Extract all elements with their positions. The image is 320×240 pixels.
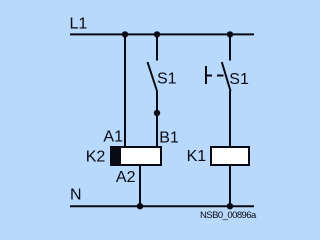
- svg-text:K1: K1: [187, 148, 207, 165]
- svg-text:B1: B1: [159, 130, 179, 147]
- svg-text:A2: A2: [116, 169, 136, 186]
- svg-text:N: N: [70, 187, 82, 204]
- svg-text:S1: S1: [157, 71, 177, 88]
- svg-text:L1: L1: [70, 16, 88, 33]
- svg-text:NSB0_00896a: NSB0_00896a: [200, 210, 257, 221]
- svg-text:S1: S1: [229, 71, 249, 88]
- svg-text:K2: K2: [86, 148, 106, 165]
- svg-text:A1: A1: [103, 129, 123, 146]
